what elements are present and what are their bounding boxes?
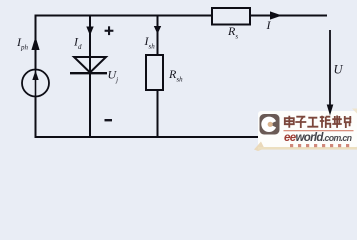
wire: bottom rail [35, 136, 261, 138]
watermark title underline [284, 130, 354, 131]
wire: left branch vertical [35, 15, 37, 139]
svg-text:eeworld.com.cn: eeworld.com.cn [284, 132, 352, 144]
output voltage arrow U (line) [329, 30, 331, 106]
arrowhead Iph on left branch [31, 37, 39, 51]
wire: top rail right segment (after Rs) [250, 15, 327, 17]
diode cathode bar [70, 72, 107, 74]
arrowhead I on output wire [270, 11, 282, 19]
plus sign (polarity) [105, 30, 114, 32]
arrowhead Ish on shunt branch [154, 26, 161, 34]
minus sign (polarity) [105, 119, 113, 121]
watermark title glyphs (电子工程世界) [285, 116, 352, 129]
current source Iph (circle) [22, 70, 49, 97]
resistor Rs (box) [212, 8, 250, 25]
output voltage arrowhead [327, 105, 334, 116]
node: top-left corner junction [34, 14, 37, 17]
resistor Rsh (box) [146, 55, 163, 90]
watermark background box [254, 109, 357, 152]
svg-text:U: U [334, 63, 344, 77]
current source internal wire [35, 70, 37, 97]
watermark slogan dots [290, 144, 349, 147]
node: diode branch / top rail junction [89, 14, 92, 17]
wire: diode branch vertical [89, 15, 91, 138]
node: diode branch / bottom rail junction [89, 136, 92, 139]
current source internal arrowhead [32, 71, 38, 81]
node: shunt branch / bottom rail junction [156, 136, 159, 139]
watermark logo C shape [261, 117, 279, 132]
node: shunt branch / top rail junction [156, 14, 159, 17]
arrowhead Id on diode branch [86, 27, 93, 36]
wire: top rail left segment [35, 15, 213, 17]
diode D (triangle) [74, 57, 106, 73]
wire: shunt branch vertical [157, 15, 159, 138]
watermark logo square [260, 114, 280, 135]
